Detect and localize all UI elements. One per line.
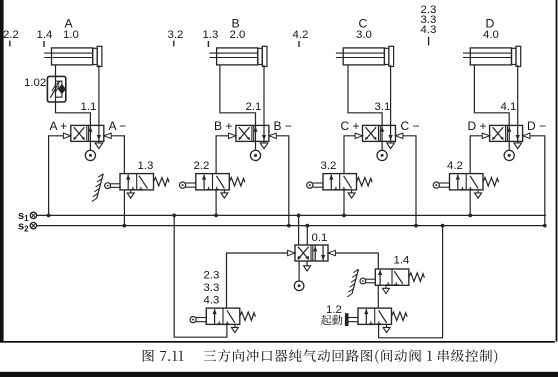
valve 0.1 right pilot port bbox=[328, 250, 335, 255]
junction 1.3 on s2 bbox=[123, 224, 127, 228]
label qidong (start) bbox=[321, 315, 332, 325]
exhaust under valve 2.1 bbox=[260, 141, 268, 148]
wire cylinder A left port to flow valve 1.02 bbox=[55, 65, 57, 77]
valve 4.2 plunger actuator bbox=[433, 182, 449, 188]
valve 3.1 left pilot port bbox=[355, 133, 362, 138]
bus line s1 bbox=[37, 214, 546, 216]
valve 1.1 right pilot port bbox=[104, 133, 111, 138]
wire cylinder C right port to valve 3.1 bbox=[390, 65, 392, 126]
svg-text:2.1: 2.1 bbox=[246, 101, 262, 113]
valve 1.4 roller actuator bbox=[360, 278, 375, 284]
3/2 valve 3.2 box bbox=[323, 174, 357, 190]
svg-text:3.2: 3.2 bbox=[321, 160, 337, 172]
frame bottom bar bbox=[0, 372, 558, 377]
wire valve 4.2 supply to bus s1 bbox=[469, 190, 471, 216]
pressure source under valve 2.1 bbox=[250, 141, 260, 160]
valve 3.2 return spring bbox=[357, 178, 373, 186]
junction B- on s2 bbox=[287, 224, 291, 228]
wire pilot D- to bus s2 bbox=[530, 136, 545, 226]
one-way flow control valve 1.02 bbox=[47, 76, 65, 102]
wire pilot B+ to valve 2.2 output bbox=[216, 136, 228, 174]
svg-text:1.3: 1.3 bbox=[203, 29, 219, 41]
cylinder 1.0 (A) bbox=[44, 46, 102, 66]
junction 2.2 on s1 bbox=[214, 214, 218, 218]
valve 1.2 flow arrow bbox=[364, 309, 368, 324]
wire valve 0.1 right pilot to valve 1.4 output bbox=[335, 253, 378, 269]
3/2 valve 1.3 box bbox=[120, 174, 154, 190]
valve 3.2 plunger actuator bbox=[307, 182, 323, 188]
valve 1.1 straight-flow cell arrows bbox=[88, 125, 101, 141]
valve 0.1 left pilot port bbox=[288, 250, 295, 255]
wire bus s2 to valve 0.1 output bbox=[306, 226, 308, 245]
wire pilot C+ to valve 3.2 output bbox=[344, 136, 355, 174]
wire cylinder C left port to valve 3.1 bbox=[348, 65, 382, 126]
svg-text:3.1: 3.1 bbox=[375, 101, 391, 113]
valve 4.1 left pilot port bbox=[482, 133, 489, 138]
svg-text:2.0: 2.0 bbox=[230, 29, 246, 41]
valve 2.1 straight-flow cell arrows bbox=[253, 125, 266, 141]
3/2 valve 1.2 box bbox=[358, 308, 392, 324]
valve 2.3/3.3/4.3 return spring bbox=[240, 312, 256, 320]
valve 0.1 straight-flow cell arrows bbox=[313, 246, 325, 261]
wire cylinder D left port to valve 4.1 bbox=[474, 65, 509, 126]
wire valve 1.4 supply to valve 1.2 output bbox=[377, 285, 379, 308]
label 4.2 position mark bbox=[293, 29, 309, 47]
4/2 impulse valve 1.1 box bbox=[71, 125, 104, 141]
junction 3.2 on s1 bbox=[342, 214, 346, 218]
svg-text:1.4: 1.4 bbox=[394, 255, 410, 267]
svg-text:2.2: 2.2 bbox=[194, 160, 210, 172]
junction 0.1-s1 bbox=[297, 214, 301, 218]
svg-text:4.3: 4.3 bbox=[421, 24, 437, 36]
label 1.4 position mark bbox=[37, 29, 53, 47]
pressure source under valve 4.1 bbox=[504, 141, 514, 160]
label 3.2 position mark bbox=[168, 29, 184, 46]
cylinder 3.0 (C) bbox=[336, 46, 394, 66]
wire pilot A- to valve 1.3 output bbox=[111, 136, 124, 174]
svg-text:1.2: 1.2 bbox=[326, 304, 342, 316]
caption bbox=[143, 349, 497, 363]
valve 1.1 left pilot port bbox=[63, 133, 70, 138]
svg-text:1.1: 1.1 bbox=[81, 101, 97, 113]
valve 2.1 crossed-flow cell bbox=[239, 127, 250, 140]
svg-text:C +: C + bbox=[341, 119, 360, 133]
valve 3.1 straight-flow cell arrows bbox=[380, 125, 393, 141]
frame left bar bbox=[0, 0, 4, 342]
valve 1.3 flow arrow bbox=[126, 174, 130, 189]
svg-text:4.2: 4.2 bbox=[447, 160, 463, 172]
valve 1.2 return spring bbox=[392, 312, 408, 320]
wire cylinder B right port to valve 2.1 bbox=[263, 65, 265, 126]
valve 1.3 exhaust bbox=[127, 190, 134, 198]
svg-text:C −: C − bbox=[401, 119, 420, 133]
valve 4.1 straight-flow cell arrows bbox=[507, 125, 520, 141]
pressure source under valve 3.1 bbox=[377, 141, 387, 160]
junction A+ on s1 bbox=[47, 214, 51, 218]
wire pilot D+ to valve 4.2 output bbox=[470, 136, 482, 174]
svg-text:A −: A − bbox=[109, 119, 127, 133]
svg-text:3.0: 3.0 bbox=[356, 29, 372, 41]
valve 1.2 exhaust bbox=[383, 324, 390, 332]
wire cylinder B left port to valve 2.1 bbox=[220, 65, 256, 126]
valve 1.4 cam wall bbox=[347, 269, 358, 297]
junction 0.1-s2 bbox=[305, 224, 309, 228]
svg-text:D +: D + bbox=[468, 119, 487, 133]
svg-text:4.0: 4.0 bbox=[483, 29, 499, 41]
4/2 cascade valve 0.1 box bbox=[295, 245, 328, 261]
svg-text:3.3: 3.3 bbox=[204, 282, 220, 294]
wire cylinder A right port to valve 1.1 bbox=[98, 65, 100, 126]
exhaust under valve 1.1 bbox=[95, 141, 103, 148]
exhaust under valve 0.1 bbox=[304, 261, 311, 271]
svg-text:4.3: 4.3 bbox=[204, 295, 220, 307]
valve 4.2 blocked passage bbox=[460, 176, 478, 190]
valve 2.1 left pilot port bbox=[229, 133, 236, 138]
valve 1.4 exhaust bbox=[383, 285, 390, 293]
4/2 impulse valve 2.1 box bbox=[236, 125, 269, 141]
junction bottom feed on s1 bbox=[172, 214, 176, 218]
3/2 valve 2.3/3.3/4.3 box bbox=[206, 308, 240, 324]
wire valve 2.2 supply to bus s1 bbox=[215, 190, 217, 216]
label 2.2 position mark bbox=[3, 29, 19, 46]
svg-text:1.0: 1.0 bbox=[63, 29, 79, 41]
svg-text:2.2: 2.2 bbox=[3, 29, 19, 41]
svg-text:B +: B + bbox=[214, 119, 232, 133]
frame rule above caption bbox=[0, 341, 555, 343]
valve 2.2 plunger actuator bbox=[180, 182, 196, 188]
valve 4.1 right pilot port bbox=[523, 133, 530, 138]
junction 4.2 on s1 bbox=[468, 214, 472, 218]
exhaust under valve 3.1 bbox=[387, 141, 395, 148]
valve 1.4 blocked passage bbox=[386, 271, 403, 285]
valve 2.2 blocked passage bbox=[207, 176, 225, 190]
svg-text:D −: D − bbox=[527, 119, 546, 133]
3/2 valve 2.2 box bbox=[196, 174, 230, 190]
valve 1.4 return spring bbox=[409, 273, 425, 281]
wire valve 3.2 supply to bus s1 bbox=[343, 190, 345, 216]
pressure source under valve 0.1 bbox=[294, 261, 304, 291]
valve 4.1 crossed-flow cell bbox=[492, 127, 503, 140]
valve 2.3/3.3/4.3 exhaust bbox=[231, 324, 238, 332]
valve 2.3/3.3/4.3 blocked passage bbox=[217, 310, 235, 324]
svg-text:1.4: 1.4 bbox=[37, 29, 53, 41]
cylinder 2.0 (B) bbox=[209, 46, 267, 66]
4/2 impulse valve 4.1 box bbox=[490, 125, 523, 141]
pressure source under valve 1.1 bbox=[85, 141, 95, 160]
valve 2.3/3.3/4.3 flow arrow bbox=[213, 309, 217, 324]
wire valve 1.2 supply to bus s2 bbox=[379, 226, 443, 338]
valve 4.2 flow arrow bbox=[456, 174, 460, 189]
svg-text:0.1: 0.1 bbox=[312, 232, 328, 244]
valve 1.1 crossed-flow cell bbox=[74, 127, 85, 140]
valve 1.2 blocked passage bbox=[369, 310, 387, 324]
bus s1 source symbol bbox=[30, 212, 36, 218]
junction D- on s2 bbox=[543, 224, 547, 228]
svg-text:3.2: 3.2 bbox=[168, 29, 184, 41]
junction C- on s2 bbox=[414, 224, 418, 228]
valve 0.1 crossed-flow cell bbox=[298, 247, 309, 260]
labels 2.3 3.3 4.3 bbox=[204, 270, 220, 307]
valve 3.1 right pilot port bbox=[396, 133, 403, 138]
bus line s2 bbox=[37, 225, 545, 227]
3/2 valve 4.2 box bbox=[450, 174, 484, 190]
svg-text:B −: B − bbox=[274, 119, 292, 133]
svg-text:4.1: 4.1 bbox=[501, 101, 517, 113]
valve 2.2 flow arrow bbox=[202, 174, 206, 189]
valve 1.3 cam wall bbox=[92, 174, 103, 202]
valve 3.2 blocked passage bbox=[334, 176, 352, 190]
svg-text:4.2: 4.2 bbox=[293, 29, 309, 41]
wire cylinder D right port to valve 4.1 bbox=[517, 65, 519, 126]
valve 1.3 return spring bbox=[154, 178, 170, 186]
svg-text:1.3: 1.3 bbox=[138, 160, 154, 172]
valve 3.2 exhaust bbox=[348, 190, 355, 198]
valve 1.3 roller actuator bbox=[105, 183, 120, 189]
valve 2.1 right pilot port bbox=[269, 133, 276, 138]
cylinder 4.0 (D) bbox=[463, 46, 521, 66]
wire pilot C- to bus s2 bbox=[403, 136, 416, 226]
valve 2.3/3.3/4.3 plunger actuator bbox=[190, 317, 206, 323]
wire valve 1.3 supply to bus s2 bbox=[123, 190, 125, 226]
wire flow valve 1.02 to valve 1.1 port bbox=[56, 102, 91, 126]
valve 4.2 exhaust bbox=[475, 190, 482, 198]
svg-text:2.3: 2.3 bbox=[204, 270, 220, 282]
junction bottom feed on s2 bbox=[441, 224, 445, 228]
4/2 impulse valve 3.1 box bbox=[363, 125, 396, 141]
wire pilot A+ to bus s1 bbox=[49, 136, 64, 216]
svg-text:A +: A + bbox=[50, 119, 68, 133]
label 2.3 3.3 4.3 position marks bbox=[421, 4, 437, 45]
wire pilot B- to bus s2 bbox=[276, 136, 289, 226]
valve 1.3 blocked passage bbox=[131, 176, 148, 190]
exhaust under valve 4.1 bbox=[514, 141, 522, 148]
label 1.3 position mark bbox=[203, 29, 219, 47]
valve 3.2 flow arrow bbox=[329, 174, 333, 189]
valve 2.2 return spring bbox=[229, 178, 245, 186]
valve 4.2 return spring bbox=[483, 178, 499, 186]
valve 3.1 crossed-flow cell bbox=[365, 127, 376, 140]
valve 1.2 push button actuator bbox=[345, 314, 358, 326]
frame right line bbox=[556, 0, 558, 342]
wire bus s1 down to bottom feed bbox=[174, 215, 227, 337]
valve 1.4 flow arrow bbox=[378, 270, 382, 285]
valve 2.2 exhaust bbox=[221, 190, 228, 198]
3/2 valve 1.4 box bbox=[375, 269, 409, 285]
svg-text:1.02: 1.02 bbox=[24, 77, 46, 89]
wire valve 0.1 left pilot to valve 2.3 output bbox=[227, 253, 288, 308]
bus s2 source symbol bbox=[30, 222, 36, 228]
wire bus s1 to valve 0.1 output bbox=[298, 215, 300, 245]
